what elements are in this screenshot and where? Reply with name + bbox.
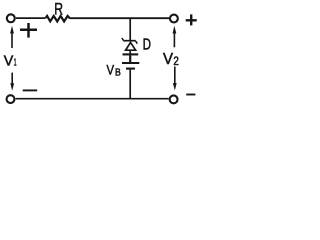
diode D (zener)	[122, 38, 138, 50]
minus sign right	[186, 94, 195, 96]
wire bottom rail	[16, 98, 169, 100]
terminal circle bottom-left	[7, 95, 15, 103]
svg-text:D: D	[143, 36, 151, 53]
minus sign left	[23, 89, 38, 91]
plus sign left	[20, 23, 37, 38]
plus sign right	[186, 14, 197, 25]
svg-text:V: V	[107, 62, 115, 78]
wire top rail left segment	[16, 17, 46, 19]
label V2	[163, 51, 179, 68]
svg-text:V: V	[163, 51, 173, 68]
resistor R	[46, 16, 70, 22]
terminal circle bottom-right	[170, 95, 178, 103]
label VB	[107, 62, 122, 79]
terminal circle top-right	[170, 15, 178, 23]
arrow V2 down	[173, 67, 177, 91]
label V1	[4, 53, 17, 70]
arrow V2 up	[173, 26, 177, 48]
svg-text:R: R	[54, 0, 63, 19]
battery VB top plate	[123, 53, 139, 55]
svg-text:2: 2	[173, 54, 179, 68]
wire top rail right segment	[70, 17, 169, 19]
terminal circle top-left	[7, 14, 15, 22]
svg-text:B: B	[115, 68, 121, 79]
battery VB short plate	[126, 68, 135, 70]
battery VB long plate	[122, 62, 139, 64]
arrow V1 down	[10, 73, 14, 91]
arrow V1 up	[10, 26, 14, 48]
wire diode to battery	[129, 50, 131, 54]
svg-text:V: V	[4, 53, 14, 70]
wire branch bottom	[129, 70, 131, 99]
wire branch top	[129, 18, 131, 40]
svg-text:1: 1	[14, 58, 17, 69]
battery stem	[129, 56, 131, 63]
